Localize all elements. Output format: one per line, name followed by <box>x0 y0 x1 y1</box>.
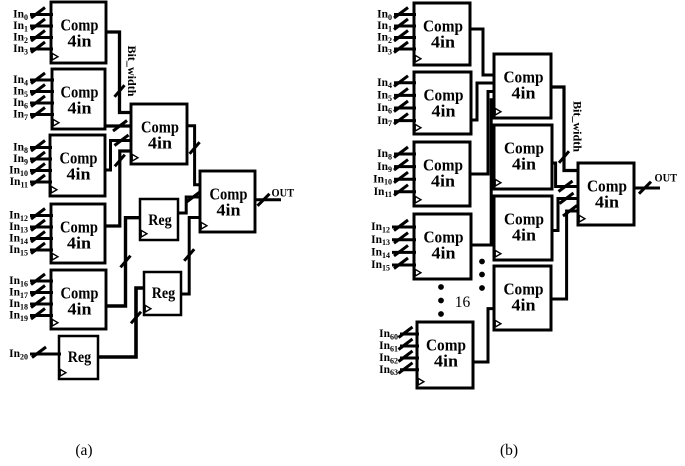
svg-text:Bit_width: Bit_width <box>125 46 137 98</box>
svg-text:OUT: OUT <box>272 186 295 200</box>
svg-text:4in: 4in <box>432 244 456 263</box>
svg-text:16: 16 <box>455 294 471 311</box>
svg-text:OUT: OUT <box>655 171 678 185</box>
svg-text:4in: 4in <box>431 172 455 191</box>
svg-text:4in: 4in <box>595 193 619 212</box>
svg-text:4in: 4in <box>68 99 92 118</box>
svg-text:Reg: Reg <box>152 285 176 302</box>
svg-text:4in: 4in <box>432 102 456 121</box>
svg-text:4in: 4in <box>512 84 536 103</box>
svg-text:4in: 4in <box>512 296 536 315</box>
svg-text:4in: 4in <box>67 165 91 184</box>
svg-text:Reg: Reg <box>68 349 92 366</box>
svg-text:4in: 4in <box>68 32 92 51</box>
svg-text:4in: 4in <box>217 201 241 220</box>
svg-text:4in: 4in <box>434 352 458 371</box>
svg-text:Reg: Reg <box>148 212 172 229</box>
svg-text:4in: 4in <box>512 155 536 174</box>
svg-text:4in: 4in <box>67 234 91 253</box>
svg-text:4in: 4in <box>431 33 455 52</box>
svg-text:4in: 4in <box>148 134 172 153</box>
svg-text:Bit_width: Bit_width <box>571 101 583 153</box>
svg-text:(a): (a) <box>75 442 92 459</box>
svg-text:(b): (b) <box>500 442 518 459</box>
svg-text:4in: 4in <box>512 226 536 245</box>
svg-text:4in: 4in <box>68 300 92 319</box>
